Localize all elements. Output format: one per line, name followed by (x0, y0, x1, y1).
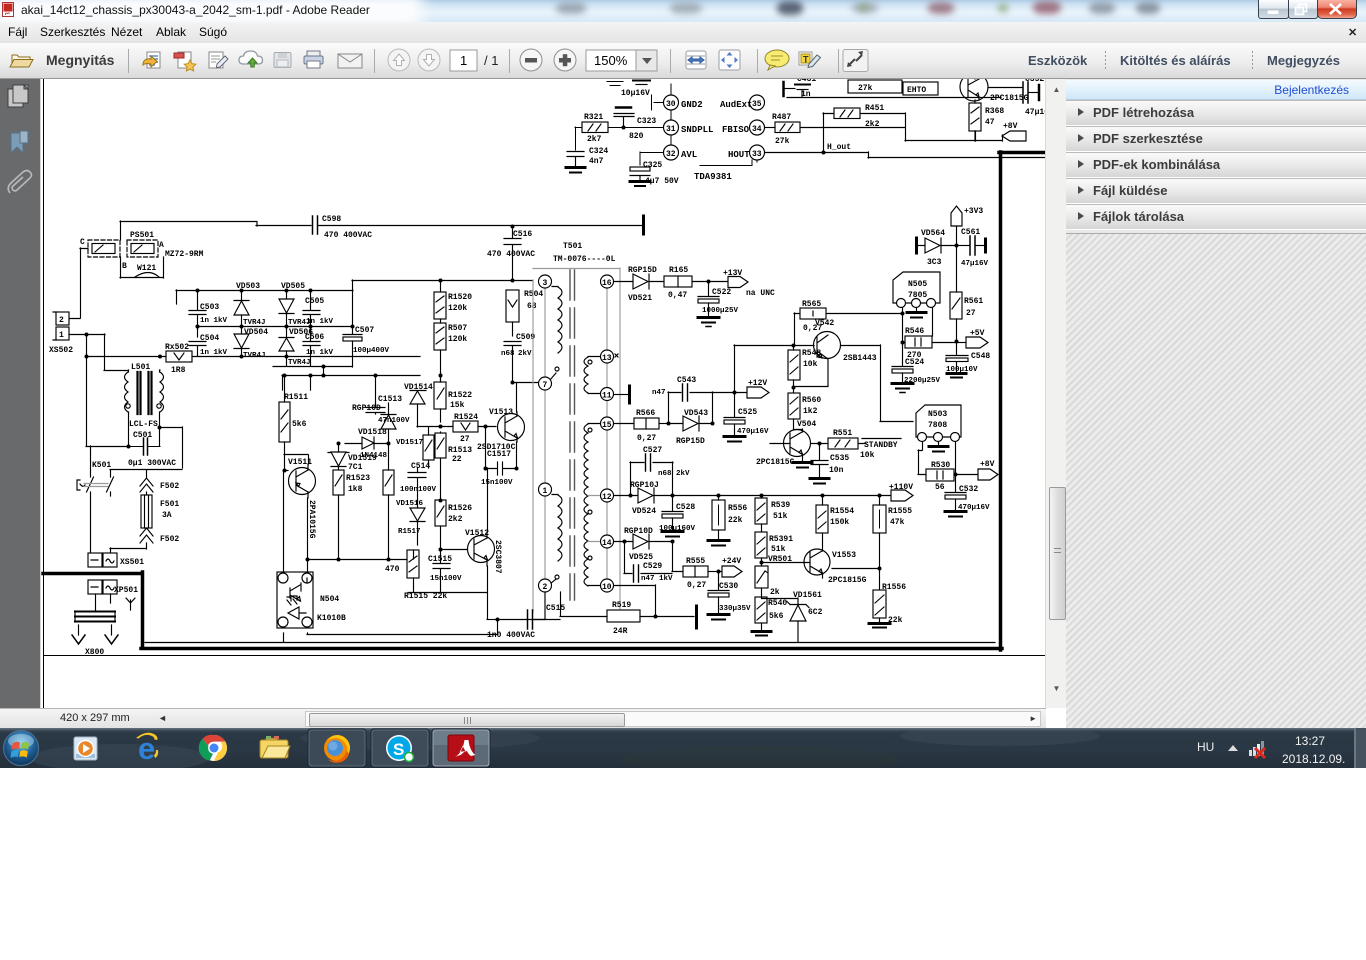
capacitor C515 (528, 610, 533, 629)
svg-text:3C3: 3C3 (927, 258, 942, 267)
svg-text:+24V: +24V (722, 557, 741, 566)
svg-text:n68 2kV: n68 2kV (658, 470, 690, 478)
+8V arrow top right (1002, 131, 1026, 141)
svg-text:C324: C324 (589, 147, 608, 156)
svg-text:+8V: +8V (1003, 122, 1018, 131)
capacitor C532 (945, 475, 966, 511)
svg-text:EHTO: EHTO (907, 86, 926, 95)
junction pin1 wire (85, 333, 89, 337)
svg-text:2SB1443: 2SB1443 (843, 354, 877, 363)
svg-text:S: S (393, 740, 404, 759)
wire K501 right to C501 right branch (110, 470, 182, 478)
wire under boxes (787, 97, 1001, 99)
svg-text:V1513: V1513 (489, 408, 513, 417)
svg-text:R1513: R1513 (448, 446, 472, 455)
zoom minus (520, 49, 542, 71)
V1512 emitter down to bus (408, 566, 488, 619)
svg-text:F501: F501 (160, 500, 179, 509)
svg-text:N505: N505 (908, 280, 927, 289)
svg-text:35: 35 (752, 100, 762, 109)
2SC3807 vertical label (493, 540, 502, 574)
diode VD1520 up (381, 403, 396, 443)
wire rail down to PS501 (120, 221, 122, 240)
svg-text:VD503: VD503 (236, 282, 260, 291)
svg-text:R507: R507 (448, 324, 467, 333)
svg-text:C325: C325 (643, 161, 662, 170)
wire pin16 to VD521 (614, 281, 728, 283)
connector XP501 (88, 580, 117, 594)
svg-text:10k: 10k (860, 451, 875, 460)
wire cluster bottoms to bus (307, 559, 407, 561)
svg-text:3A: 3A (162, 511, 172, 520)
svg-text:RGP10D: RGP10D (624, 527, 653, 536)
svg-text:n68: n68 (501, 350, 515, 358)
capacitor C530 (708, 572, 729, 614)
svg-text:4n7: 4n7 (589, 157, 604, 166)
svg-text:C505: C505 (305, 297, 324, 306)
svg-text:330µ35V: 330µ35V (719, 605, 751, 613)
svg-text:VD504: VD504 (244, 328, 268, 337)
capacitor C506 (303, 326, 320, 366)
svg-text:C504: C504 (200, 334, 219, 343)
svg-text:VD1561: VD1561 (793, 591, 822, 600)
svg-text:1000µ25V: 1000µ25V (702, 307, 739, 315)
svg-text:R540: R540 (768, 599, 787, 608)
ground C528 (662, 532, 683, 537)
svg-text:VD1519: VD1519 (348, 454, 377, 463)
svg-text:2PA1015G: 2PA1015G (307, 500, 316, 539)
capacitor C524 (892, 343, 913, 383)
capacitor C535 (811, 444, 828, 478)
pagenav down circle (418, 49, 440, 71)
svg-text:C514: C514 (411, 462, 430, 471)
svg-text:R1511: R1511 (284, 393, 308, 402)
save floppy (disabled) (274, 53, 291, 68)
thick enclosure border top right (999, 151, 1045, 155)
svg-text:R539: R539 (771, 501, 790, 510)
WMP icon (74, 737, 97, 760)
svg-text:VD524: VD524 (632, 507, 656, 516)
pin 10 (601, 579, 614, 592)
wire bridge output up right (352, 280, 533, 326)
doc with red flag + star (174, 52, 196, 71)
pin 3 (539, 275, 552, 288)
svg-text:R1555: R1555 (888, 507, 912, 516)
svg-text:C515: C515 (546, 604, 565, 613)
svg-text:47n100V: 47n100V (378, 417, 410, 425)
capacitor C507 electrolytic (343, 326, 362, 366)
pin 31 (664, 120, 679, 135)
resistor R555 (683, 566, 722, 577)
resistor R519 (560, 592, 655, 622)
ground C530 (708, 615, 729, 620)
firefox button (308, 729, 366, 767)
capacitor C1513 (366, 403, 385, 414)
capacitor C548 (946, 342, 968, 372)
pagenav up circle (388, 49, 410, 71)
svg-text:2k2: 2k2 (448, 515, 463, 524)
capacitor C325 (630, 167, 650, 181)
svg-text:0µ1 300VAC: 0µ1 300VAC (128, 459, 176, 468)
svg-text:470µ16V: 470µ16V (737, 428, 769, 436)
svg-text:5k6: 5k6 (769, 612, 784, 621)
svg-text:1: 1 (543, 487, 548, 496)
svg-text:AVL: AVL (681, 150, 697, 160)
svg-text:HU: HU (1197, 740, 1214, 754)
thick enclosure border right vertical (999, 152, 1003, 650)
fit page icon (719, 50, 740, 70)
svg-text:C532: C532 (959, 485, 978, 494)
diode VD504 (234, 326, 249, 356)
svg-text:RGP10J: RGP10J (630, 481, 659, 490)
svg-text:+12V: +12V (748, 379, 767, 388)
svg-text:+110V: +110V (889, 483, 913, 492)
resistor Rx502 (86, 351, 420, 362)
svg-text:AudExt: AudExt (720, 100, 752, 110)
ground N505 pin2 (907, 308, 926, 318)
terminal bar right of R519 (695, 606, 698, 628)
wire R451 loop (800, 113, 906, 152)
svg-text:2018.12.09.: 2018.12.09. (1282, 752, 1345, 766)
svg-text:C516: C516 (513, 230, 532, 239)
transistor V1511 (289, 464, 316, 498)
transistor V504 (784, 429, 811, 462)
inductor L501 (125, 370, 164, 414)
capacitor C503 (189, 311, 206, 327)
svg-text:V504: V504 (797, 420, 816, 429)
svg-text:B: B (122, 262, 127, 271)
svg-text:R451: R451 (865, 104, 884, 113)
wire C598 rail (120, 222, 642, 227)
wire pin12 to VD524 (614, 495, 760, 497)
resistor R1524 (417, 421, 496, 432)
pin 14 (601, 535, 614, 548)
wire pin29 stub (670, 84, 672, 95)
junction dot HOUT (822, 151, 826, 155)
svg-text:C1515: C1515 (428, 555, 452, 564)
svg-text:1R8: 1R8 (171, 366, 186, 375)
connector XS501 (88, 553, 117, 567)
resistor R1513 (435, 432, 446, 500)
svg-text:13: 13 (602, 354, 612, 363)
svg-text:C1513: C1513 (378, 395, 402, 404)
svg-text:N504: N504 (320, 595, 339, 604)
capacitor C516 (504, 226, 521, 280)
diode VD525 (633, 534, 649, 549)
posistor PS501 section A (127, 240, 158, 257)
wire V542 emitter to R548 bottom (794, 386, 828, 388)
svg-text:24R: 24R (613, 627, 628, 636)
svg-text:1: 1 (460, 53, 467, 68)
wire R368 bottom to arrow rail (905, 131, 1003, 141)
svg-text:XS502: XS502 (49, 346, 73, 355)
resistor R1520 (434, 280, 446, 319)
resistor R548 (788, 345, 800, 393)
resistor R539 (755, 495, 767, 532)
svg-text:C507: C507 (355, 326, 374, 335)
svg-text:H_out: H_out (827, 143, 851, 152)
svg-text:10µ16V: 10µ16V (621, 89, 650, 98)
wire bridge top rail (176, 290, 353, 310)
svg-text:C535: C535 (830, 454, 849, 463)
svg-text:R1554: R1554 (830, 507, 854, 516)
svg-text:VD543: VD543 (684, 409, 708, 418)
svg-text:2k2: 2k2 (865, 120, 880, 129)
svg-text:27: 27 (460, 435, 470, 444)
svg-text:47: 47 (985, 118, 995, 127)
svg-text:PS501: PS501 (130, 231, 154, 240)
svg-text:C: C (80, 238, 85, 247)
svg-text:1n 1kV: 1n 1kV (200, 349, 228, 357)
transistor V1553 (804, 533, 830, 578)
resistor R540 (755, 597, 767, 631)
svg-text:27: 27 (966, 309, 976, 318)
wire V1512 base (440, 549, 467, 551)
svg-text:TVR4J: TVR4J (288, 359, 311, 367)
ground C535 (810, 479, 829, 484)
capacitor C1515 (433, 549, 450, 592)
sign T pen (799, 52, 821, 68)
svg-text:R1517: R1517 (398, 528, 421, 536)
+12V arrow (747, 387, 769, 398)
svg-text:VD1514: VD1514 (404, 383, 433, 392)
ground R556 (708, 541, 729, 546)
capacitor C504 (189, 342, 206, 357)
wire +13V rail to R565 branch (794, 308, 903, 345)
capacitor C505 (303, 290, 320, 326)
cloud upload (239, 51, 263, 67)
svg-text:22k: 22k (728, 516, 743, 525)
svg-text:1n0 400VAC: 1n0 400VAC (487, 631, 535, 640)
schematic frame bottom thin line (44, 655, 1046, 657)
resistor R504 (506, 290, 519, 336)
cloudy texture (30, 744, 210, 772)
capacitor C561 (956, 236, 984, 255)
svg-text:6C2: 6C2 (808, 608, 823, 617)
wire y345 (734, 345, 814, 392)
capacitor C598 (313, 216, 318, 234)
svg-text:16: 16 (602, 279, 612, 288)
pin 15 (601, 417, 614, 430)
svg-text:VD1516: VD1516 (396, 500, 424, 508)
transistor V542 (814, 332, 914, 422)
svg-text:K1010B: K1010B (317, 614, 346, 623)
svg-text:C598: C598 (322, 215, 341, 224)
svg-text:470 400VAC: 470 400VAC (487, 250, 535, 259)
+5V arrow (956, 337, 988, 348)
svg-text:MZ72-9RM: MZ72-9RM (165, 250, 204, 259)
svg-text:TM-0076----0L: TM-0076----0L (553, 255, 616, 264)
page number box (450, 50, 477, 71)
capacitor (cut by toolbar) top (607, 82, 623, 86)
svg-text:0,47: 0,47 (668, 291, 687, 300)
Explorer icon (260, 736, 290, 758)
svg-text:VD521: VD521 (628, 294, 652, 303)
svg-text:C529: C529 (643, 562, 662, 571)
resistor R1523 (333, 470, 344, 559)
zener VD1561 (762, 597, 810, 642)
trimmer VR501 (755, 566, 768, 597)
wire V1513 emitter down (516, 442, 518, 468)
svg-text:R519: R519 (612, 601, 631, 610)
svg-text:33: 33 (752, 150, 762, 159)
svg-text:RGP15D: RGP15D (676, 437, 705, 446)
svg-text:C561: C561 (961, 228, 980, 237)
svg-text:TVR4J: TVR4J (243, 352, 266, 360)
ground C325 (630, 182, 650, 187)
transistor V1512 (468, 532, 495, 566)
svg-text:T: T (803, 55, 809, 65)
V1512 collector to C1517 node (487, 468, 489, 532)
junction dot R321/C323 (622, 126, 626, 130)
svg-text:L501: L501 (131, 363, 150, 372)
resistor R487 (765, 122, 800, 133)
svg-text:0,27: 0,27 (637, 434, 656, 443)
doc with pencil (sign) (209, 52, 228, 68)
svg-text:12: 12 (602, 493, 612, 502)
svg-text:R530: R530 (931, 461, 950, 470)
svg-text:C323: C323 (637, 117, 656, 126)
resistor R368 (969, 100, 981, 141)
svg-text:+3V3: +3V3 (964, 207, 983, 216)
capacitor C324 (567, 152, 584, 168)
resistor R551 (811, 438, 866, 449)
svg-text:R1523: R1523 (346, 474, 370, 483)
svg-text:R1522: R1522 (448, 391, 472, 400)
doc with orange arrow (previous) (143, 52, 160, 68)
svg-text:C501: C501 (133, 431, 152, 440)
transformer outline gray (533, 268, 620, 612)
svg-text:15n100V: 15n100V (481, 479, 513, 487)
svg-text:R1556: R1556 (882, 583, 906, 592)
svg-text:32: 32 (666, 150, 676, 159)
pin 34 FBISO (750, 120, 765, 135)
resistor R566 (634, 418, 668, 429)
diode VD1519 zener (328, 443, 349, 470)
svg-text:34: 34 (752, 125, 762, 134)
svg-text:C506: C506 (305, 333, 324, 342)
+13V arrow (728, 277, 748, 288)
+24V arrow (722, 566, 742, 577)
wire pin32 to C325 (640, 152, 663, 165)
svg-text:+13V: +13V (723, 269, 742, 278)
svg-text:100µ400V: 100µ400V (353, 347, 390, 355)
svg-text:SNDPLL: SNDPLL (681, 125, 713, 135)
diode VD1518 (345, 437, 388, 449)
svg-text:R504: R504 (524, 290, 543, 299)
adobe button (active) (432, 729, 490, 767)
svg-text:2: 2 (543, 583, 548, 592)
svg-text:30: 30 (666, 100, 676, 109)
fit width icon (686, 51, 706, 69)
svg-text:2k7: 2k7 (587, 135, 602, 144)
svg-text:R546: R546 (905, 327, 924, 336)
wire N504 pins (284, 472, 308, 642)
pin 2 (539, 579, 552, 592)
svg-text:n47 1kV: n47 1kV (641, 575, 673, 583)
pin 1 (539, 483, 552, 496)
ground R1556 (869, 624, 890, 628)
wire bridge bottom rail (240, 355, 244, 359)
svg-text:10: 10 (602, 583, 612, 592)
zoom plus (554, 49, 576, 71)
svg-text:F502: F502 (160, 482, 179, 491)
svg-text:68: 68 (527, 302, 537, 311)
svg-text:R556: R556 (728, 504, 747, 513)
svg-text:XS501: XS501 (120, 558, 144, 567)
svg-text:VD525: VD525 (629, 553, 653, 562)
svg-text:100n100V: 100n100V (400, 486, 437, 494)
svg-text:7C1: 7C1 (348, 463, 363, 472)
comment bubble (765, 50, 789, 70)
svg-text:VD1517: VD1517 (396, 439, 423, 447)
svg-text:R5391: R5391 (769, 535, 793, 544)
svg-text:R321: R321 (584, 113, 603, 122)
svg-text:2: 2 (59, 316, 64, 325)
pin 7 (539, 377, 552, 390)
resistor R165 (664, 276, 692, 287)
capacitor C509 (504, 342, 521, 384)
wire XS502 pin1 to mains (69, 334, 87, 446)
resistor R1511 (279, 375, 290, 470)
resistor R451 (834, 108, 860, 119)
svg-text:15: 15 (602, 421, 612, 430)
resistor R530 (926, 469, 954, 481)
svg-text:2k: 2k (770, 588, 780, 597)
thick enclosure border left step (43, 572, 142, 576)
resistor R1554 (816, 495, 828, 533)
resistor R1526 (435, 500, 446, 549)
resistor R1522 (434, 375, 446, 422)
svg-text:X800: X800 (85, 648, 104, 657)
svg-text:LCL-FS: LCL-FS (129, 420, 158, 429)
wire pins left column (670, 110, 672, 144)
svg-text:Rx502: Rx502 (165, 343, 189, 352)
svg-text:N503: N503 (928, 410, 947, 419)
thick enclosure border bottom (141, 647, 1002, 651)
diode VD1517 box (423, 427, 434, 468)
ground C532 (945, 512, 966, 517)
capacitor C1517 (485, 427, 516, 475)
svg-text:R368: R368 (985, 107, 1004, 116)
secondary winding top (13-11) (584, 357, 600, 394)
wire C501 to K501 (86, 446, 128, 477)
diode VD543 (668, 416, 712, 431)
capacitor C525 (724, 418, 745, 437)
+110V arrow (891, 490, 913, 501)
fuse F502 lower arrows (110, 528, 153, 553)
svg-text:150k: 150k (830, 518, 849, 527)
ground C324 (566, 168, 585, 173)
svg-text:10k: 10k (803, 360, 818, 369)
thermistor W121 arc (120, 257, 164, 278)
wire PS501 to XS502 pin2 (69, 248, 88, 319)
pin 11 (601, 388, 614, 401)
svg-text:V1553: V1553 (832, 551, 856, 560)
fuse F502 upper arrows (140, 478, 153, 495)
svg-text:RGP15D: RGP15D (628, 266, 657, 275)
wire +12V node (712, 392, 747, 417)
svg-text:1k8: 1k8 (348, 485, 363, 494)
svg-text:+8V: +8V (980, 460, 995, 469)
ground at GND2 (652, 95, 664, 110)
pin 33 HOUT (750, 145, 765, 160)
svg-text:10n: 10n (829, 466, 844, 475)
svg-text:3: 3 (543, 279, 548, 288)
svg-text:1k2: 1k2 (803, 407, 818, 416)
junction C509 bottom (511, 381, 515, 385)
wire N504 pin2 row (307, 620, 498, 635)
